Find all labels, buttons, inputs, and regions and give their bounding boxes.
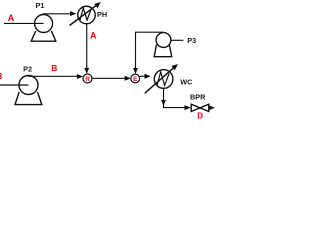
WC zigzag bbox=[157, 72, 169, 85]
svg-text:PH: PH bbox=[97, 10, 107, 19]
svg-text:B: B bbox=[51, 63, 57, 73]
wire: PH down to node R bbox=[86, 24, 88, 69]
arrowhead down into R bbox=[84, 68, 89, 74]
pump P3 pedestal bbox=[154, 45, 172, 57]
svg-text:WC: WC bbox=[180, 78, 193, 87]
svg-text:E: E bbox=[133, 76, 138, 83]
node E bbox=[131, 74, 140, 83]
svg-text:R: R bbox=[85, 76, 90, 83]
pump P2 body bbox=[19, 76, 38, 95]
PH adjustable diagonal arrow bbox=[70, 6, 96, 26]
pump P1 body bbox=[35, 15, 53, 33]
wire: P1 outlet to PH bbox=[43, 13, 71, 15]
svg-text:P1: P1 bbox=[36, 1, 45, 10]
arrowhead into PH bbox=[70, 11, 76, 16]
water chiller WC body bbox=[154, 70, 173, 89]
wire: E to WC bbox=[140, 75, 146, 77]
pH meter PH body bbox=[78, 6, 96, 24]
arrowhead down above corner bbox=[161, 100, 166, 106]
svg-text:A: A bbox=[8, 13, 15, 23]
svg-text:A: A bbox=[90, 31, 97, 41]
valve BPR bowtie bbox=[191, 104, 209, 111]
arrowhead into WC bbox=[145, 74, 151, 79]
PH zigzag bbox=[80, 8, 91, 20]
arrowhead down into E bbox=[133, 68, 138, 74]
svg-text:P3: P3 bbox=[187, 36, 196, 45]
wire: top run from corner to P3 bbox=[135, 31, 164, 33]
wire: P3 branch down into E bbox=[135, 32, 137, 69]
pump P1 pedestal bbox=[31, 31, 56, 41]
pump P3 body bbox=[156, 33, 171, 48]
node R bbox=[83, 74, 92, 83]
wire: BPR outlet arrow at right edge bbox=[208, 107, 211, 109]
wire: P3 inlet from label bbox=[171, 39, 183, 41]
wire: stream B into pump P2 bbox=[0, 84, 29, 86]
svg-text:B: B bbox=[0, 71, 2, 81]
svg-text:D: D bbox=[197, 111, 203, 120]
arrowhead into R bbox=[77, 74, 83, 79]
wire: WC down and right to BPR bbox=[164, 88, 187, 107]
arrowhead into BPR valve bbox=[185, 105, 191, 110]
svg-text:P2: P2 bbox=[23, 64, 32, 73]
svg-text:BPR: BPR bbox=[190, 92, 206, 101]
wire: P2 outlet to node R bbox=[28, 75, 77, 77]
pump P2 pedestal bbox=[15, 92, 42, 105]
wire: stream A into pump P1 bbox=[4, 22, 44, 24]
wire: R to E bbox=[92, 77, 126, 79]
WC adjustable diagonal arrow bbox=[145, 68, 174, 93]
arrowhead into E bbox=[125, 76, 131, 81]
